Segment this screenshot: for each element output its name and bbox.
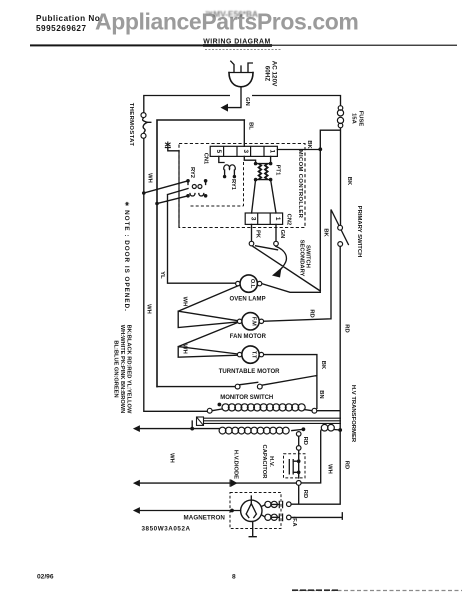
svg-text:BN: BN <box>318 390 324 398</box>
svg-text:RD: RD <box>343 461 349 469</box>
svg-text:BL:BLUE GN:GREEN: BL:BLUE GN:GREEN <box>113 340 119 397</box>
svg-text:SECONDARY: SECONDARY <box>298 240 304 277</box>
svg-text:5995269627: 5995269627 <box>36 24 87 33</box>
svg-text:1: 1 <box>274 217 281 221</box>
svg-text:BK:BLACK RD:RED YL:YELLOW: BK:BLACK RD:RED YL:YELLOW <box>126 325 132 414</box>
svg-text:MONITOR SWITCH: MONITOR SWITCH <box>220 395 273 401</box>
svg-text:1: 1 <box>269 150 276 154</box>
svg-text:RD: RD <box>302 490 308 498</box>
svg-text:BK: BK <box>306 140 312 149</box>
svg-text:WH: WH <box>182 344 188 354</box>
svg-text:CN2: CN2 <box>286 214 292 226</box>
svg-text:8: 8 <box>232 574 236 581</box>
svg-text:FUSE: FUSE <box>358 111 364 127</box>
svg-text:RY1: RY1 <box>230 179 236 191</box>
svg-text:SWITCH: SWITCH <box>305 245 311 268</box>
svg-text:MAGNETRON: MAGNETRON <box>184 514 226 521</box>
svg-text:OVEN LAMP: OVEN LAMP <box>230 297 266 303</box>
svg-text:PT1: PT1 <box>275 165 281 176</box>
svg-text:WH: WH <box>146 304 152 314</box>
svg-text:AC 120V: AC 120V <box>270 61 277 87</box>
svg-text:TURNTABLE MOTOR: TURNTABLE MOTOR <box>219 369 280 375</box>
svg-text:3850W3A052A: 3850W3A052A <box>142 526 191 533</box>
svg-text:WH: WH <box>182 297 188 307</box>
svg-text:T.T: T.T <box>251 351 257 359</box>
svg-text:RD: RD <box>302 437 308 445</box>
svg-text:3: 3 <box>242 150 249 154</box>
svg-text:™MV-E56*BA: ™MV-E56*BA <box>205 9 258 19</box>
svg-text:CAPACITOR: CAPACITOR <box>261 445 267 480</box>
svg-text:5: 5 <box>215 150 222 154</box>
svg-text:F.M: F.M <box>251 317 257 326</box>
svg-text:WH: WH <box>169 453 175 463</box>
svg-text:WH: WH <box>147 173 153 183</box>
svg-text:PRIMARY SWITCH: PRIMARY SWITCH <box>356 206 362 258</box>
svg-text:GN: GN <box>279 230 285 239</box>
svg-text:WH:WHITE PK:PINK BN:BROWN: WH:WHITE PK:PINK BN:BROWN <box>119 325 125 413</box>
svg-text:(F.A: (F.A <box>291 516 297 526</box>
svg-text:BK: BK <box>323 228 329 237</box>
svg-text:3: 3 <box>250 217 257 221</box>
svg-text:H.V.: H.V. <box>268 456 274 467</box>
svg-text:RD: RD <box>309 309 315 317</box>
svg-text:CN1: CN1 <box>203 153 209 165</box>
svg-text:15A: 15A <box>351 113 357 124</box>
svg-text:BK: BK <box>346 177 352 186</box>
svg-text:02/96: 02/96 <box>37 574 54 581</box>
svg-text:BK: BK <box>320 361 326 370</box>
svg-text:PK: PK <box>254 230 260 239</box>
svg-text:RY2: RY2 <box>189 167 195 178</box>
svg-text:BL: BL <box>248 122 254 130</box>
svg-text:MICOM CONTROLLER: MICOM CONTROLLER <box>297 150 303 219</box>
svg-text:THERMOSTAT: THERMOSTAT <box>128 103 134 147</box>
svg-text:GN: GN <box>244 97 250 106</box>
svg-text:∗ NOTE : DOOR IS OPENED.: ∗ NOTE : DOOR IS OPENED. <box>123 201 130 312</box>
svg-text:60HZ: 60HZ <box>263 66 270 82</box>
svg-text:H.V.DIODE: H.V.DIODE <box>232 450 238 479</box>
svg-text:FAN MOTOR: FAN MOTOR <box>230 334 267 340</box>
svg-text:H.V TRANSFORMER: H.V TRANSFORMER <box>350 385 356 443</box>
svg-text:YL: YL <box>159 271 165 279</box>
svg-text:Publication No.: Publication No. <box>36 14 103 23</box>
svg-text:O.L: O.L <box>249 279 255 289</box>
svg-text:RD: RD <box>343 324 349 332</box>
svg-text:WH: WH <box>327 464 333 474</box>
